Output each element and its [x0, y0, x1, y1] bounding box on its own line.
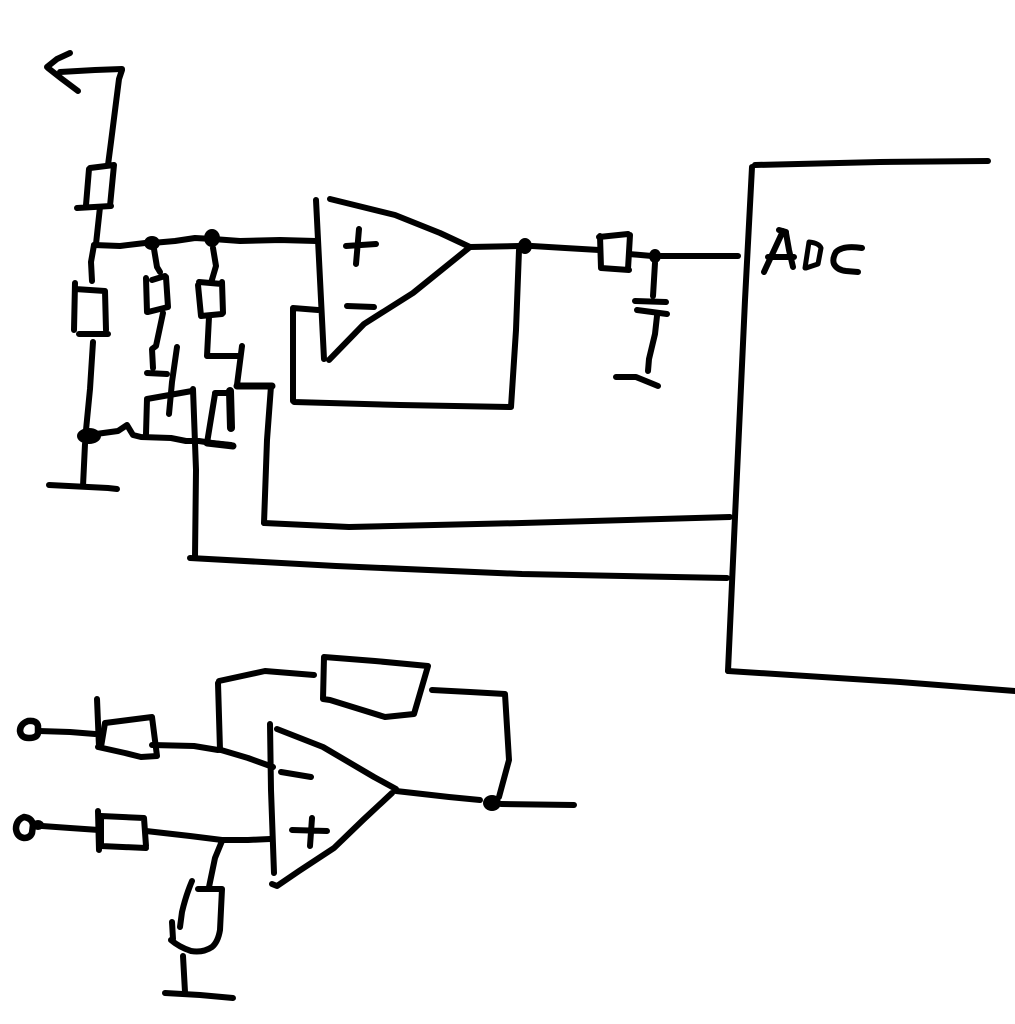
feedback wire 1 vertical	[264, 386, 271, 523]
op-amp U1 hypotenuse	[329, 247, 470, 360]
label ADC letter D	[805, 242, 821, 268]
switch arm diagonal D2	[207, 393, 229, 443]
wire dot1 to R3	[154, 249, 160, 272]
label ADC letter A	[764, 230, 794, 272]
resistor R2	[74, 283, 108, 334]
wire top bus	[94, 238, 316, 246]
op-amp U2 minus pin	[281, 772, 311, 777]
node dot5 output U2	[483, 795, 501, 811]
junction blob node	[78, 429, 100, 443]
op-amp U2 top edge	[277, 729, 396, 789]
wire arrow to R1	[108, 70, 122, 165]
wire feedback tap vertical	[218, 683, 220, 750]
node dot4	[649, 249, 661, 263]
wire R5 to U2 minus	[152, 745, 273, 767]
node dot3 output U1	[518, 238, 532, 254]
node dot1	[144, 236, 160, 250]
capacitor C1 bottom plate	[637, 310, 667, 314]
wire R8 to ground	[183, 956, 185, 992]
wire tap to R8	[209, 841, 222, 887]
wire stub bold end	[207, 443, 233, 446]
wire R9 to dot4	[629, 254, 652, 256]
wire T1 to R5	[39, 731, 95, 734]
feedback loop U1	[293, 250, 519, 407]
input terminal T2	[16, 817, 33, 838]
op-amp U2 left edge	[270, 724, 274, 873]
op-amp U2 bottom edge	[272, 793, 392, 886]
wire tap to R7	[219, 671, 314, 681]
resistor R9	[599, 234, 630, 270]
resistor R6 left lead	[98, 811, 99, 850]
wiper arrow shaft horizontal	[60, 69, 122, 72]
ground G1	[49, 485, 117, 489]
resistor R7 feedback	[323, 657, 428, 717]
open box wire	[146, 391, 192, 434]
ADC box left edge	[728, 167, 752, 671]
wire dot4 to capacitor	[653, 263, 655, 296]
resistor R5	[98, 717, 157, 757]
wire R3 down to switch contact	[152, 313, 163, 368]
input terminal T1	[20, 721, 38, 738]
wiper arrow head lower arm	[48, 68, 78, 91]
wire horizontal H3	[237, 383, 272, 390]
resistor R1	[77, 165, 114, 208]
wire wavy from blob to right	[96, 425, 231, 445]
wire dot2 to R4	[211, 248, 216, 283]
wire R2 to junction blob	[86, 342, 93, 430]
op-amp U1 plus pin	[346, 229, 376, 264]
op-amp U1 left edge	[316, 200, 324, 359]
wiper arrow head upper arm	[47, 53, 70, 67]
wire R7 to output node	[432, 690, 509, 797]
resistor R8	[171, 881, 222, 952]
feedback wire 1 horizontal to ADC	[264, 517, 730, 527]
wire C1 to ground	[648, 316, 657, 371]
wire dot3 to R9	[532, 246, 599, 250]
wire output right	[501, 804, 574, 805]
capacitor C1 top plate	[635, 301, 666, 302]
node dot2	[204, 229, 220, 247]
feedback wire 2 horizontal to ADC	[190, 558, 727, 578]
wire T2 to R6	[42, 826, 99, 830]
ADC box bottom edge	[728, 671, 1015, 691]
wire dot4 to ADC	[661, 253, 738, 259]
resistor R5 left lead	[97, 699, 99, 747]
wire U2 output	[396, 791, 480, 800]
resistor R6	[101, 816, 146, 848]
feedback wire 2 vertical	[193, 389, 196, 557]
wire R6 to U2 plus	[146, 831, 270, 840]
label ADC letter C	[833, 247, 862, 272]
op-amp U2 plus pin	[292, 818, 327, 846]
wire R4 down and right	[207, 317, 240, 356]
op-amp U1 minus pin	[347, 306, 374, 307]
op-amp U1 top edge	[330, 199, 470, 247]
wire R1 to bus	[96, 207, 100, 244]
bold vertical BV	[230, 391, 231, 428]
wire bus to R2	[91, 245, 94, 281]
resistor R4	[198, 282, 223, 316]
ground G3	[165, 993, 233, 998]
wire U1 output	[470, 246, 519, 247]
resistor R3	[146, 276, 168, 312]
ground G2	[616, 377, 658, 386]
wire blob to ground	[83, 444, 85, 486]
ADC box top edge	[755, 161, 988, 165]
switch contact bar B1	[147, 373, 167, 374]
wire vertical V3	[237, 346, 242, 385]
switch arm SA1	[169, 347, 177, 414]
